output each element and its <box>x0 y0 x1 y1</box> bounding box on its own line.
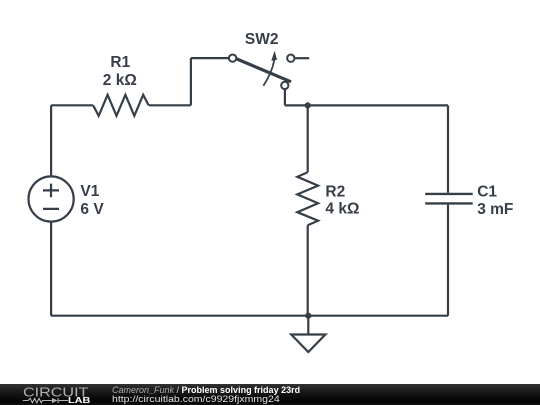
svg-text:4 kΩ: 4 kΩ <box>325 201 359 218</box>
svg-text:R2: R2 <box>325 184 345 201</box>
SW2 blade <box>237 59 291 82</box>
wire: R2 top lead <box>307 105 309 172</box>
SW2 left terminal <box>229 54 236 61</box>
svg-text:R1: R1 <box>110 54 130 71</box>
wire: switch right stub (open) <box>295 57 309 59</box>
wire: R1 to corner <box>149 104 191 106</box>
switch SW2 <box>229 51 294 89</box>
node junction A (top) <box>305 102 311 108</box>
wire: bottom rail <box>51 315 448 317</box>
wire: left column V1 branch <box>50 105 52 315</box>
svg-text:6 V: 6 V <box>80 201 104 218</box>
attribution text <box>112 386 300 404</box>
wire: top rail left of R1 <box>51 104 93 106</box>
svg-text:LAB: LAB <box>68 395 90 405</box>
wire: to junction A <box>285 104 308 106</box>
svg-text:2 kΩ: 2 kΩ <box>103 72 137 89</box>
wire: top rail junction to right column <box>308 104 448 106</box>
node junction B (bottom) <box>305 313 311 319</box>
svg-text:3 mF: 3 mF <box>477 201 513 218</box>
ground <box>291 335 325 353</box>
wire: right column to C1 top plate <box>447 105 449 192</box>
wire: riser to switch level <box>190 58 192 105</box>
wire: C1 bottom plate to bottom rail <box>447 205 449 316</box>
svg-text:V1: V1 <box>80 183 99 200</box>
footer bar <box>0 384 540 405</box>
wire: R2 bottom lead <box>307 225 309 316</box>
resistor R1 <box>93 95 149 116</box>
resistor R2 <box>297 172 318 225</box>
svg-text:SW2: SW2 <box>245 31 279 48</box>
SW2 right terminal <box>287 55 294 62</box>
capacitor C1 <box>425 194 473 204</box>
wire: to switch left terminal <box>191 57 229 59</box>
svg-text:C1: C1 <box>477 183 497 200</box>
wire: ground stub <box>307 316 309 335</box>
CircuitLab logo <box>0 384 100 405</box>
SW2 bottom terminal <box>281 82 288 89</box>
wire: switch bottom terminal down <box>284 89 286 106</box>
voltage source V1 <box>28 176 73 221</box>
SW2 actuation arrow <box>263 60 274 86</box>
